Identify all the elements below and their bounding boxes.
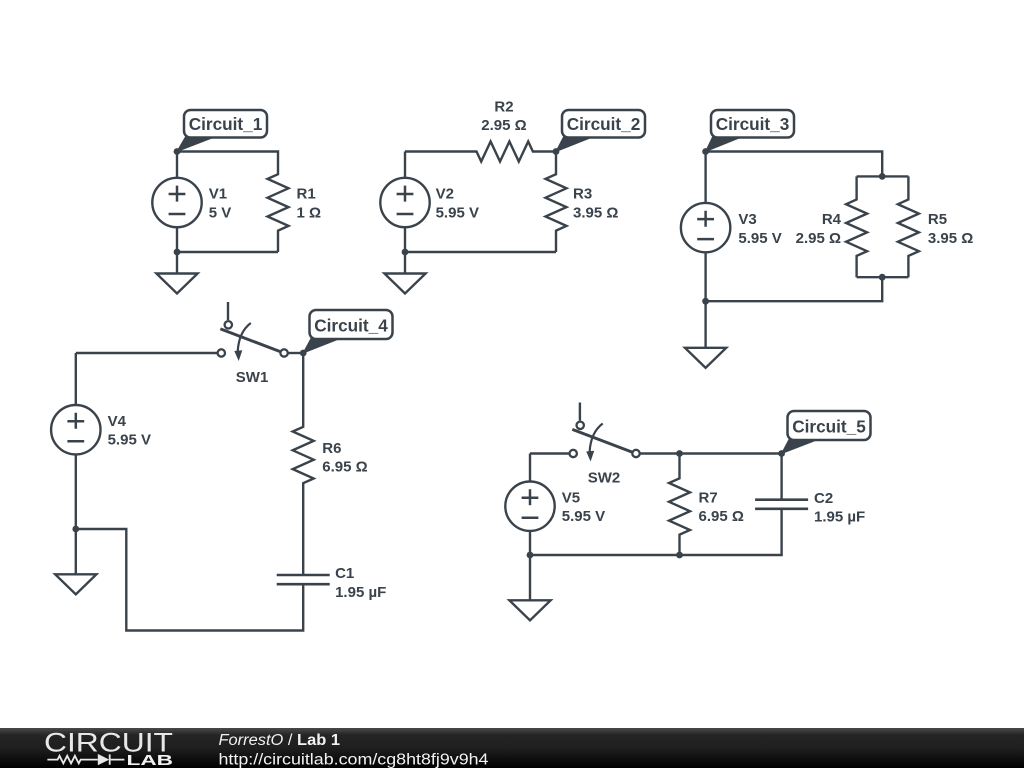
- svg-text:V5: V5: [562, 489, 580, 506]
- svg-text:5.95 V: 5.95 V: [562, 508, 605, 525]
- svg-text:Circuit_3: Circuit_3: [716, 114, 790, 134]
- svg-text:V4: V4: [108, 413, 127, 430]
- svg-text:C2: C2: [814, 490, 833, 507]
- svg-text:SW2: SW2: [588, 469, 621, 486]
- svg-text:R6: R6: [322, 440, 341, 457]
- svg-text:5.95 V: 5.95 V: [436, 205, 479, 222]
- svg-text:R4: R4: [822, 211, 842, 228]
- svg-text:1.95 µF: 1.95 µF: [335, 584, 386, 601]
- svg-text:3.95 Ω: 3.95 Ω: [928, 230, 973, 247]
- svg-text:C1: C1: [335, 565, 354, 582]
- svg-text:2.95 Ω: 2.95 Ω: [796, 230, 841, 247]
- svg-text:Circuit_2: Circuit_2: [567, 114, 641, 134]
- svg-text:Circuit_1: Circuit_1: [189, 114, 263, 134]
- svg-text:6.95 Ω: 6.95 Ω: [699, 508, 744, 525]
- svg-text:1.95 µF: 1.95 µF: [814, 509, 865, 526]
- svg-text:SW1: SW1: [236, 369, 269, 386]
- svg-text:V3: V3: [738, 211, 756, 228]
- svg-text:V2: V2: [436, 186, 454, 203]
- svg-text:LAB: LAB: [127, 752, 174, 768]
- svg-text:R2: R2: [494, 98, 513, 115]
- svg-text:Circuit_4: Circuit_4: [314, 316, 388, 336]
- svg-text:R7: R7: [699, 489, 718, 506]
- svg-text:R1: R1: [297, 186, 316, 203]
- svg-text:5 V: 5 V: [209, 205, 232, 222]
- svg-text:5.95 V: 5.95 V: [108, 432, 151, 449]
- svg-text:2.95 Ω: 2.95 Ω: [481, 117, 526, 134]
- svg-text:5.95 V: 5.95 V: [738, 230, 781, 247]
- svg-text:V1: V1: [209, 186, 227, 203]
- svg-text:3.95 Ω: 3.95 Ω: [573, 205, 618, 222]
- svg-text:http://circuitlab.com/cg8ht8fj: http://circuitlab.com/cg8ht8fj9v9h4: [219, 752, 489, 768]
- svg-text:ForrestO / Lab 1: ForrestO / Lab 1: [219, 732, 341, 749]
- svg-text:R5: R5: [928, 211, 947, 228]
- svg-text:Circuit_5: Circuit_5: [792, 417, 866, 437]
- svg-text:1 Ω: 1 Ω: [297, 205, 322, 222]
- svg-text:R3: R3: [573, 186, 592, 203]
- svg-text:6.95 Ω: 6.95 Ω: [322, 459, 367, 476]
